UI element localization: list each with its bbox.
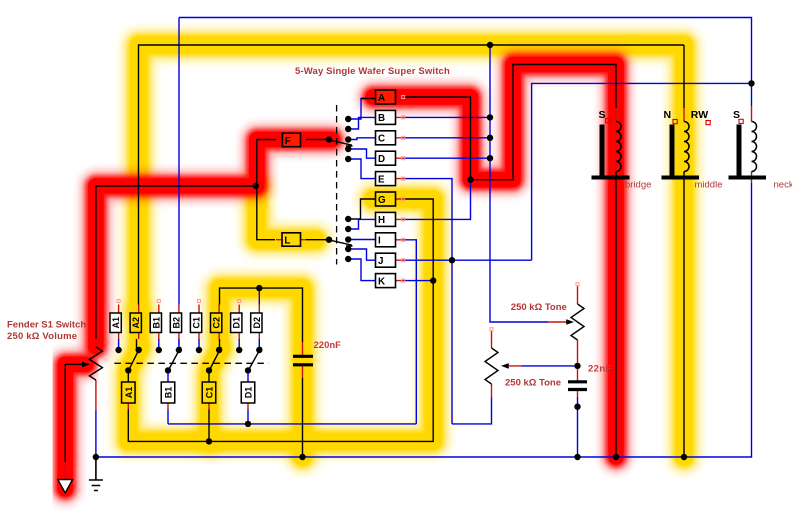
svg-text:neck: neck — [774, 180, 792, 191]
svg-text:S: S — [733, 109, 740, 121]
svg-text:RW: RW — [691, 109, 708, 121]
svg-text:D2: D2 — [252, 317, 262, 329]
svg-text:E: E — [378, 174, 385, 185]
svg-text:250 kΩ Volume: 250 kΩ Volume — [7, 331, 77, 342]
svg-text:F: F — [285, 136, 291, 147]
svg-text:A: A — [378, 93, 385, 104]
svg-text:I: I — [378, 236, 381, 247]
svg-text:250 kΩ Tone: 250 kΩ Tone — [511, 302, 567, 313]
svg-text:N: N — [664, 109, 672, 121]
svg-text:220nF: 220nF — [314, 340, 342, 351]
svg-text:K: K — [378, 276, 385, 287]
svg-text:L: L — [284, 235, 290, 246]
svg-text:D1: D1 — [232, 317, 242, 329]
svg-text:B1: B1 — [151, 317, 161, 329]
svg-text:H: H — [378, 215, 385, 226]
svg-text:B: B — [378, 113, 385, 124]
svg-text:5-Way Single Wafer Super Switc: 5-Way Single Wafer Super Switch — [295, 66, 450, 77]
svg-text:250 kΩ Tone: 250 kΩ Tone — [505, 378, 561, 389]
svg-text:C2: C2 — [212, 317, 222, 329]
svg-text:C1: C1 — [205, 387, 215, 399]
svg-text:Fender S1 Switch: Fender S1 Switch — [7, 319, 86, 330]
svg-text:A1: A1 — [111, 317, 121, 329]
svg-text:B2: B2 — [171, 317, 181, 329]
svg-text:D: D — [378, 154, 385, 165]
svg-text:A1: A1 — [124, 387, 134, 399]
svg-text:A2: A2 — [131, 317, 141, 329]
svg-text:G: G — [378, 195, 386, 206]
svg-text:J: J — [378, 256, 383, 267]
svg-text:C: C — [378, 134, 385, 145]
svg-text:C1: C1 — [192, 317, 202, 329]
svg-text:bridge: bridge — [625, 180, 651, 191]
svg-text:B1: B1 — [164, 387, 174, 399]
svg-text:D1: D1 — [244, 387, 254, 399]
svg-text:22nF: 22nF — [588, 364, 612, 375]
svg-text:middle: middle — [695, 180, 723, 191]
svg-text:S: S — [599, 109, 606, 121]
